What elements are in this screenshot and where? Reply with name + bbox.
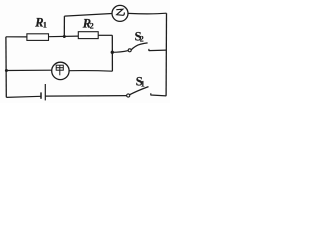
wire left vertical bbox=[5, 37, 7, 98]
wire main horizontal left segment bbox=[6, 36, 27, 38]
switch S1 pivot bbox=[127, 94, 130, 97]
wire top horizontal right bbox=[128, 12, 167, 15]
wire bottom left bbox=[6, 96, 41, 97]
wire R2 right to corner bbox=[98, 34, 112, 36]
svg-text:2: 2 bbox=[90, 22, 94, 31]
node junction A (dot) bbox=[63, 35, 66, 38]
wire battery to S1 bbox=[45, 95, 126, 98]
switch S1 lever bbox=[130, 87, 149, 95]
wire S2 contact to right vertical bbox=[149, 49, 167, 51]
switch S2 pivot bbox=[128, 49, 131, 52]
wire S1 contact to corner bbox=[151, 93, 167, 96]
resistor R1 bbox=[27, 34, 49, 41]
lamp A branch wire right bbox=[69, 70, 112, 73]
wire R1 to junction to R2 bbox=[49, 35, 79, 38]
lamp A branch wire left bbox=[6, 69, 51, 71]
battery short plate bbox=[40, 92, 42, 98]
wire S2 branch bbox=[112, 51, 128, 53]
lamp B glyph (yi character) bbox=[116, 9, 124, 15]
lamp A glyph (jia character) bbox=[56, 65, 63, 75]
lamp A (circle) bbox=[52, 62, 69, 79]
wire right vertical bbox=[165, 13, 167, 96]
wire mid vertical bbox=[111, 35, 113, 71]
node junction left (dot) bbox=[5, 69, 8, 72]
svg-text:2: 2 bbox=[140, 34, 144, 43]
wire top horizontal left bbox=[64, 14, 112, 17]
svg-text:1: 1 bbox=[43, 20, 47, 29]
node junction mid (dot) bbox=[111, 51, 114, 54]
wire top branch vertical bbox=[63, 16, 65, 37]
svg-text:1: 1 bbox=[141, 79, 145, 88]
resistor R2 bbox=[78, 32, 98, 39]
switch S2 lever bbox=[131, 43, 148, 50]
lamp B (circle) bbox=[112, 5, 128, 21]
battery long plate bbox=[44, 84, 46, 100]
